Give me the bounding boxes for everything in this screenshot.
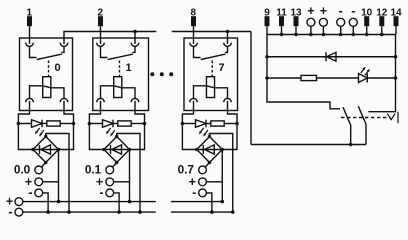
junction - circle	[339, 33, 343, 37]
wire coil right K2	[122, 88, 135, 99]
terminal 9 marker	[265, 16, 270, 26]
wire bridge top to minus bus (channel 0)	[46, 134, 69, 213]
LED V0	[32, 120, 43, 128]
wire LED to trunk right	[367, 77, 395, 79]
wire resistor branch	[267, 77, 301, 79]
wire node A7 to LED	[182, 123, 195, 125]
wire bridge bottom to output terminal 0.0	[41, 163, 45, 168]
LED V10 emission arrows	[361, 69, 364, 73]
junction trunk-left resistor line	[265, 76, 269, 80]
coil diagonal K1	[43, 86, 51, 88]
junction minus wire channel 0	[46, 210, 50, 214]
coil K1	[43, 77, 51, 98]
socket pin top-right K1	[60, 43, 68, 47]
supply + terminal circle	[307, 18, 315, 26]
bridge D7 corner nodes	[208, 135, 211, 138]
wire node A7 down to bridge left	[182, 124, 196, 150]
resistor R0	[47, 121, 60, 126]
terminal 10 marker	[364, 16, 369, 26]
diode V9 (reverse protection)	[325, 52, 327, 61]
wire terminal 8 to relay K8 pin	[193, 26, 195, 44]
wire coil left K8	[194, 86, 207, 99]
coil diagonal K2	[114, 86, 122, 88]
junction trunk-right LED line	[394, 76, 398, 80]
terminal 11 marker	[279, 16, 284, 26]
wire + circle to distribution bus	[310, 26, 312, 34]
wire terminal 13 to distribution bus	[295, 26, 297, 34]
wire node A0 to LED	[18, 123, 31, 125]
junction channel 0 on minus bus	[67, 210, 71, 214]
junction channel 1 on plus bus	[128, 200, 132, 204]
ellipsis dots between channels	[150, 72, 154, 76]
svg-text:+: +	[307, 4, 314, 18]
socket pin bottom-left K2	[97, 98, 105, 102]
wire LED to resistor R1	[113, 123, 118, 125]
junction bus tap K2	[133, 30, 137, 34]
wire plus terminal to bridge-right drop (channel 0)	[43, 181, 59, 183]
svg-text:0: 0	[54, 62, 60, 74]
output terminal 0.7 circle	[199, 166, 207, 174]
junction channel 7 on plus bus	[220, 200, 224, 204]
node B7	[235, 122, 239, 126]
svg-text:-: -	[192, 186, 196, 200]
wire terminal 1 to relay K1 pin	[29, 26, 31, 44]
wire node B0 down to bridge right	[59, 124, 74, 150]
wire bus tap to relay K2 right pin	[134, 32, 136, 45]
LED V1 emission arrows	[108, 128, 111, 132]
relay K8 outline box	[184, 38, 238, 111]
wire resistor R0 to node B0	[60, 123, 73, 125]
wire socket to contact left K2	[101, 47, 108, 58]
terminal 2 marker	[98, 16, 103, 26]
relay contact blade left (output contact)	[343, 107, 351, 144]
terminal 1 marker	[27, 16, 32, 26]
junction bus tap K8	[226, 30, 230, 34]
socket pin bottom-right K1	[60, 98, 68, 102]
node B0	[72, 122, 76, 126]
wire coil pin right to node B1	[135, 101, 145, 124]
wire plus terminal to bridge-right drop (channel 7)	[206, 181, 222, 183]
wire terminal 2 to relay K2 pin	[100, 26, 102, 44]
mechanical link dashed K8	[211, 61, 213, 77]
distribution bus	[267, 34, 396, 36]
bridge rectifier D1 diamond	[104, 137, 130, 163]
bridge D1 internal diode	[104, 149, 130, 151]
junction trunk-left diode line	[265, 55, 269, 59]
common bus segment left (relay contacts)	[64, 32, 156, 45]
LED V10 power indicator	[359, 74, 368, 83]
bridge D0 corner nodes	[44, 135, 47, 138]
junction trunk-right diode line	[394, 55, 398, 59]
socket pin top-left K1	[26, 43, 34, 47]
wire LED to resistor R0	[42, 123, 47, 125]
mechanical link dashed K1	[48, 61, 50, 77]
relay contact blade right (output contact)	[358, 106, 366, 144]
junction terminal 12	[380, 33, 384, 37]
resistor R1	[118, 121, 131, 126]
bridge rectifier D0 diamond	[33, 137, 59, 163]
minus supply terminal circle	[15, 208, 23, 216]
minus bus segment left	[23, 211, 156, 213]
mechanical link dashed (contacts)	[341, 117, 390, 119]
svg-text:7: 7	[218, 62, 224, 74]
node A7	[181, 122, 185, 126]
wire coil pin right to node B0	[64, 101, 74, 124]
manual actuator symbol	[387, 112, 398, 124]
supply + terminal circle	[319, 18, 327, 26]
wire bridge right to plus bus (channel 1)	[129, 150, 131, 202]
terminal 8 marker	[191, 16, 196, 26]
wire bridge bottom to output terminal 0.7	[205, 163, 209, 168]
wire coil left K1	[30, 86, 43, 99]
socket pin top-left K2	[97, 43, 105, 47]
relay K2 outline box	[93, 38, 149, 111]
bridge D7 internal diode	[197, 149, 223, 151]
socket pin bottom-left K8	[190, 98, 198, 102]
node A0	[17, 122, 21, 126]
coil diagonal K8	[206, 86, 214, 88]
terminal 14 marker	[394, 16, 399, 26]
terminal 12 marker	[379, 16, 384, 26]
plus supply terminal circle	[15, 198, 23, 206]
wire bridge bottom to output terminal 0.1	[112, 163, 116, 168]
junction channel 7 on minus bus	[231, 210, 235, 214]
socket pin top-left K8	[190, 43, 198, 47]
resistor R9	[301, 75, 317, 80]
wire LED to resistor R7	[206, 123, 211, 125]
wire minus terminal to minus bus (channel 1)	[114, 193, 119, 212]
relay K1 outline box	[20, 38, 73, 111]
svg-text:-: -	[28, 186, 32, 200]
coil K8	[206, 77, 214, 98]
svg-text:1: 1	[125, 62, 131, 74]
coil K2	[114, 77, 122, 98]
wire socket to contact right K8	[225, 47, 228, 53]
bridge D1 corner nodes	[115, 135, 118, 138]
socket pin bottom-left K1	[26, 98, 34, 102]
node A1	[88, 122, 92, 126]
wire bridge top to minus bus (channel 7)	[210, 134, 233, 213]
contact blade K1	[37, 54, 62, 60]
minus bus segment right	[171, 211, 233, 213]
wire node B1 down to bridge right	[130, 124, 145, 150]
plus bus segment right	[171, 201, 222, 203]
wire node A1 down to bridge left	[89, 124, 104, 150]
junction channel 1 on minus bus	[138, 210, 142, 214]
wire - circle to distribution bus	[340, 26, 342, 34]
socket pin top-right K8	[224, 43, 232, 47]
junction terminal 10	[365, 33, 369, 37]
output terminal 0.0 circle	[35, 166, 43, 174]
minus terminal circle channel 0	[35, 189, 43, 197]
wire socket to contact right K2	[132, 47, 135, 53]
output terminal 0.1 circle	[106, 166, 114, 174]
wire terminal 10 to distribution bus	[366, 26, 368, 34]
wire terminal 12 to distribution bus	[381, 26, 383, 34]
wire + circle to distribution bus	[322, 26, 324, 34]
wire terminal 14 to distribution bus	[395, 26, 397, 34]
LED V7 emission arrows	[201, 128, 204, 132]
LED V0 emission arrows	[37, 128, 40, 132]
junction + circle	[322, 33, 326, 37]
wire bridge right to plus bus (channel 0)	[58, 150, 60, 202]
wire minus terminal to minus bus (channel 7)	[206, 193, 211, 212]
plus terminal circle channel 0	[35, 178, 43, 186]
minus terminal circle channel 1	[106, 189, 114, 197]
wire diode branch	[267, 56, 396, 58]
wire common bus to contact feed (left trunk)	[250, 32, 252, 145]
supply trunk left (terminal 9 side)	[267, 35, 340, 109]
wire bridge top to minus bus (channel 1)	[117, 134, 140, 213]
minus terminal circle channel 7	[199, 189, 207, 197]
junction channel 0 on plus bus	[57, 200, 61, 204]
junction terminal 11	[280, 33, 284, 37]
wire node B7 down to bridge right	[222, 124, 237, 150]
LED V1	[103, 120, 114, 128]
wire terminal 11 to distribution bus	[281, 26, 283, 34]
mechanical link dashed K2	[119, 61, 121, 77]
wire node A1 to LED	[89, 123, 102, 125]
wire coil right K8	[215, 88, 228, 99]
wire socket to contact left K1	[30, 47, 37, 58]
socket pin bottom-right K2	[131, 98, 139, 102]
supply - terminal circle	[337, 18, 345, 26]
LED V7	[196, 120, 207, 128]
svg-text:-: -	[339, 4, 343, 18]
plus terminal circle channel 7	[199, 178, 207, 186]
plus bus segment left	[23, 201, 156, 203]
svg-text:-: -	[99, 186, 103, 200]
wire bridge right to plus bus (channel 7)	[221, 150, 223, 202]
wire coil left K2	[101, 86, 114, 99]
wire resistor to LED	[317, 77, 359, 79]
bridge rectifier D7 diamond	[197, 137, 223, 163]
wire terminal 9 to distribution bus	[266, 26, 268, 34]
junction contact common	[349, 143, 353, 147]
wire socket to contact left K8	[194, 47, 201, 58]
svg-text:+: +	[320, 4, 327, 18]
junction - circle	[352, 33, 356, 37]
wire contact common to left trunk	[251, 144, 366, 146]
bridge D0 internal diode	[33, 149, 59, 151]
wire resistor R7 to node B7	[224, 123, 237, 125]
socket pin bottom-right K8	[224, 98, 232, 102]
junction terminal 13	[294, 33, 298, 37]
terminal 13 marker	[294, 16, 299, 26]
wire bus tap to relay K8 right pin	[227, 32, 229, 45]
junction minus wire channel 7	[210, 210, 214, 214]
wire coil pin left to node A7	[182, 101, 193, 124]
wire - circle to distribution bus	[352, 26, 354, 34]
node B1	[143, 122, 147, 126]
wire coil pin left to node A0	[18, 101, 29, 124]
common bus segment right	[172, 31, 251, 33]
wire node A0 down to bridge left	[18, 124, 33, 150]
socket pin top-right K2	[131, 43, 139, 47]
supply trunk right (terminal 14 side)	[368, 35, 395, 112]
contact blade K2	[108, 54, 133, 60]
supply - terminal circle	[349, 18, 357, 26]
wire socket to contact right K1	[61, 47, 64, 53]
wire coil pin left to node A1	[89, 101, 100, 124]
wire coil pin right to node B7	[228, 101, 238, 124]
junction minus wire channel 1	[117, 210, 121, 214]
wire coil right K1	[51, 88, 64, 99]
junction + circle	[309, 33, 313, 37]
wire plus terminal to bridge-right drop (channel 1)	[114, 181, 130, 183]
contact blade K8	[201, 54, 226, 60]
svg-text:-: -	[351, 4, 355, 18]
wire resistor R1 to node B1	[131, 123, 144, 125]
resistor R7	[211, 121, 224, 126]
plus terminal circle channel 1	[106, 178, 114, 186]
wire minus terminal to minus bus (channel 0)	[43, 193, 48, 212]
svg-text:-: -	[8, 205, 12, 219]
